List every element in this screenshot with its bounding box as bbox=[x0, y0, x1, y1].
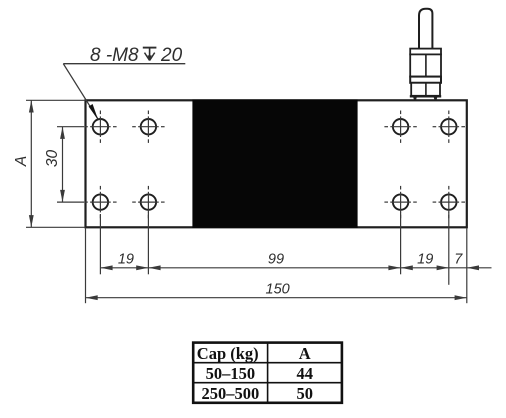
A dim top arrow bbox=[29, 100, 34, 112]
svg-text:50–150: 50–150 bbox=[206, 364, 256, 383]
arrow 19 right bbox=[136, 265, 148, 270]
svg-text:99: 99 bbox=[268, 252, 284, 268]
mounting hole H6 with center marks bbox=[433, 111, 465, 143]
mounting hole H7 with center marks bbox=[384, 186, 416, 218]
A dim top extension line bbox=[26, 99, 86, 101]
mounting hole H2 with center marks bbox=[132, 111, 164, 143]
150 right arrow bbox=[455, 295, 467, 300]
chain dimension line bbox=[100, 267, 491, 269]
gland lower block bbox=[411, 83, 440, 96]
30 dim bottom arrow bbox=[60, 190, 65, 202]
table outer border bbox=[193, 343, 342, 403]
arrow 7 outside bbox=[467, 265, 479, 270]
30 dim top arrow bbox=[60, 127, 65, 139]
gland nut center line bbox=[425, 54, 427, 76]
extension line body right edge bbox=[466, 228, 468, 303]
cable tube bbox=[419, 9, 432, 49]
svg-text:250–500: 250–500 bbox=[202, 384, 260, 403]
depth symbol bbox=[143, 48, 157, 61]
svg-text:A: A bbox=[13, 156, 30, 167]
arrow 99 right bbox=[388, 265, 400, 270]
gland right foot bbox=[434, 97, 438, 101]
leader arrowhead bbox=[89, 104, 99, 120]
arrow 19b left bbox=[401, 265, 413, 270]
svg-text:19: 19 bbox=[417, 252, 433, 268]
svg-text:A: A bbox=[299, 344, 311, 363]
svg-text:7: 7 bbox=[454, 252, 463, 268]
leader line to hole H1 bbox=[63, 64, 98, 119]
A dimension line bbox=[30, 100, 32, 227]
svg-text:150: 150 bbox=[266, 282, 290, 298]
extension line hole col 1 bbox=[99, 214, 101, 274]
mounting hole H4 with center marks bbox=[132, 186, 164, 218]
30 dimension line bbox=[62, 127, 64, 202]
annotation underline bbox=[63, 63, 185, 65]
gland base line bbox=[410, 95, 441, 97]
gland lower center line bbox=[425, 83, 427, 96]
svg-text:50: 50 bbox=[297, 384, 314, 403]
svg-text:44: 44 bbox=[297, 364, 314, 383]
load cell body outline bbox=[86, 100, 467, 227]
gland top flange band bbox=[410, 49, 441, 55]
mounting hole H3 with center marks bbox=[84, 186, 116, 218]
mounting hole H1 with center marks bbox=[84, 111, 116, 143]
A dim bottom arrow bbox=[29, 215, 34, 227]
svg-text:8 -M8: 8 -M8 bbox=[90, 45, 139, 66]
30 dim top extension line bbox=[57, 126, 84, 128]
black strain-gauge cover bbox=[192, 100, 357, 228]
150 dimension line bbox=[86, 297, 467, 299]
extension line hole col 3 bbox=[400, 212, 402, 274]
gland middle band bbox=[410, 77, 441, 83]
A dim bottom extension line bbox=[26, 226, 86, 228]
gland nut body bbox=[410, 54, 441, 76]
30 dim bottom extension line bbox=[57, 201, 84, 203]
150 left arrow bbox=[86, 295, 98, 300]
extension line hole col 4 bbox=[448, 212, 450, 285]
mounting hole H8 with center marks bbox=[433, 186, 465, 218]
table row line 2 bbox=[193, 382, 342, 384]
svg-text:20: 20 bbox=[160, 45, 183, 66]
arrow at hole col1 left bbox=[100, 265, 112, 270]
svg-text:Cap (kg): Cap (kg) bbox=[197, 344, 259, 363]
mounting hole H5 with center marks bbox=[384, 111, 416, 143]
gland left foot bbox=[413, 97, 417, 101]
table row line 1 bbox=[193, 362, 342, 364]
extension line hole col 2 bbox=[147, 212, 149, 274]
table column divider bbox=[267, 343, 269, 403]
arrow 19b right bbox=[437, 265, 449, 270]
extension line body left edge bbox=[85, 228, 87, 303]
svg-text:19: 19 bbox=[118, 252, 134, 268]
arrow 99 left bbox=[148, 265, 160, 270]
svg-text:30: 30 bbox=[44, 150, 61, 168]
